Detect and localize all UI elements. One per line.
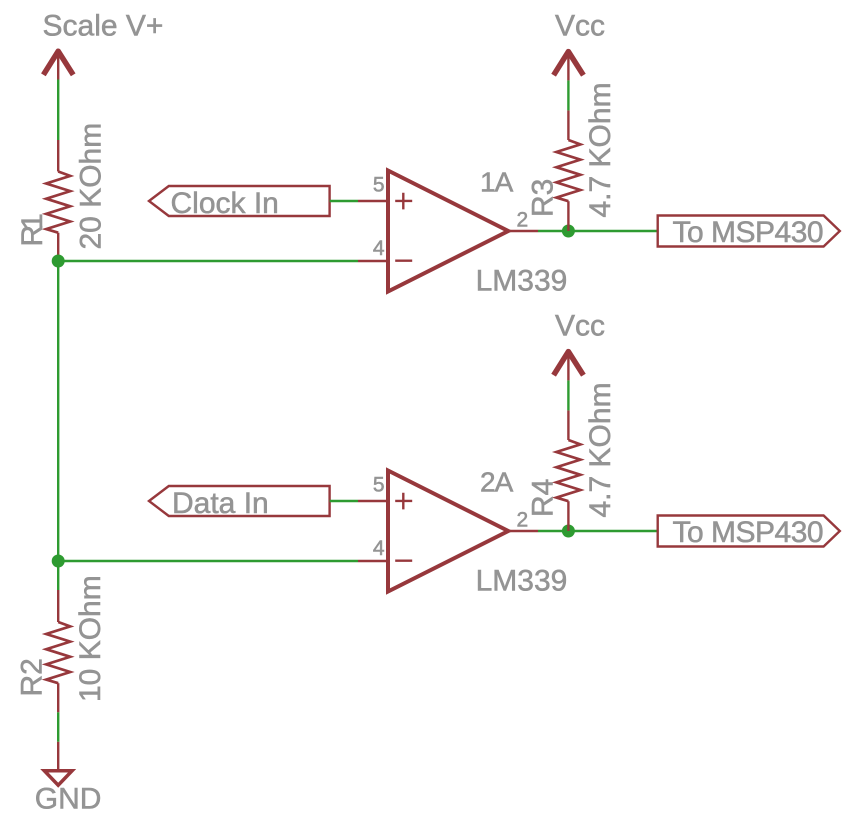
svg-text:4: 4 — [373, 537, 385, 560]
resistor R2 — [46, 590, 70, 712]
node D junction — [562, 525, 575, 538]
svg-text:LM339: LM339 — [476, 565, 568, 598]
triangle body — [388, 471, 508, 592]
svg-text:R1: R1 — [16, 214, 49, 247]
svg-text:Data In: Data In — [172, 487, 269, 520]
pin 4 stub — [358, 560, 388, 562]
svg-text:R2: R2 — [16, 658, 49, 696]
minus marker — [395, 260, 412, 262]
ground GND symbol — [44, 742, 72, 785]
wire rail node A to node B — [57, 261, 59, 561]
pin 4 stub — [358, 260, 388, 262]
wire op-amp 1 output to flag — [538, 230, 658, 232]
svg-text:R4: R4 — [527, 479, 560, 517]
supply V+ symbol (Scale V+) — [43, 51, 73, 79]
wire op-amp 2 output to flag — [538, 530, 658, 532]
minus marker — [395, 560, 412, 562]
plus marker — [395, 493, 412, 510]
node A junction — [52, 255, 65, 268]
svg-text:5: 5 — [373, 474, 385, 497]
wire node B to R2 — [57, 561, 59, 590]
svg-text:4: 4 — [373, 237, 385, 260]
wire R4 to Vcc — [567, 380, 569, 410]
plus marker — [395, 193, 412, 210]
pin 2 stub — [508, 230, 538, 232]
svg-text:2A: 2A — [480, 466, 514, 497]
input flag Clock In — [149, 186, 330, 220]
op-amp U2 (LM339 2A) — [358, 466, 567, 597]
wire node A to op-amp 1 inverting input — [58, 260, 358, 262]
resistor R3 — [556, 110, 580, 231]
triangle body — [388, 171, 508, 292]
output flag To MSP430 (top) — [658, 216, 840, 249]
resistor R4 — [556, 410, 580, 531]
svg-text:10 KOhm: 10 KOhm — [74, 575, 107, 702]
op-amp U1 (LM339 1A) — [358, 166, 567, 297]
svg-text:To MSP430: To MSP430 — [673, 516, 824, 549]
wire V+ to R1 — [57, 80, 59, 141]
svg-text:R3: R3 — [527, 179, 560, 217]
node C junction — [562, 225, 575, 238]
pin 5 stub — [358, 200, 388, 202]
wire Data In to op-amp 2 — [330, 500, 358, 502]
node B junction — [52, 555, 65, 568]
svg-text:GND: GND — [35, 783, 102, 816]
svg-text:5: 5 — [373, 174, 385, 197]
wire Clock In to op-amp 1 — [330, 200, 358, 202]
supply Vcc symbol 2 — [554, 352, 584, 381]
wire R3 to Vcc — [567, 80, 569, 110]
svg-text:20 KOhm: 20 KOhm — [75, 123, 108, 250]
wire R2 to GND — [57, 712, 59, 742]
svg-text:Vcc: Vcc — [555, 310, 605, 343]
resistor R1 — [46, 140, 70, 261]
svg-text:Clock In: Clock In — [171, 187, 279, 220]
svg-text:4.7 KOhm: 4.7 KOhm — [584, 382, 617, 517]
pin 5 stub — [358, 500, 388, 502]
pin 2 stub — [508, 530, 538, 532]
svg-text:To MSP430: To MSP430 — [673, 216, 824, 249]
svg-text:LM339: LM339 — [476, 265, 568, 298]
input flag Data In — [149, 486, 330, 520]
output flag To MSP430 (bottom) — [658, 516, 840, 549]
svg-text:4.7 KOhm: 4.7 KOhm — [584, 82, 617, 217]
svg-text:1A: 1A — [480, 166, 514, 197]
svg-text:Vcc: Vcc — [555, 10, 605, 43]
supply Vcc symbol 1 — [554, 52, 584, 81]
wire node B to op-amp 2 inverting input — [58, 560, 358, 562]
svg-text:Scale V+: Scale V+ — [43, 9, 164, 42]
